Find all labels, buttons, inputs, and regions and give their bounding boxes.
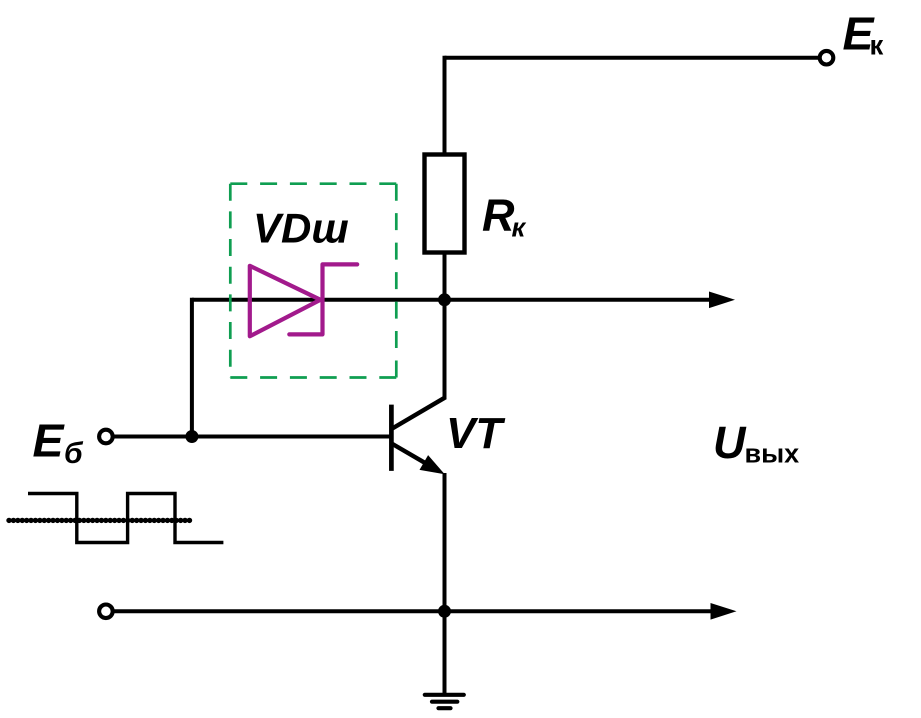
svg-text:VDш: VDш — [253, 205, 349, 252]
diode VDsh: Schottky diode triangle — [250, 266, 321, 337]
svg-text:к: к — [512, 212, 527, 242]
transistor VT: emitter arrowhead — [420, 455, 445, 474]
waveform: input square wave — [28, 494, 223, 543]
terminal: bottom-left (open circle) — [99, 605, 113, 619]
terminal Ek (open circle) — [820, 51, 834, 65]
arrowhead: output bottom — [711, 603, 737, 620]
green dashed box around Schottky diode — [230, 184, 396, 378]
wire: vertical from top rail to resistor — [443, 56, 447, 157]
svg-text:E: E — [33, 415, 66, 467]
wire: top supply rail from collector column to Ek terminal — [445, 56, 819, 60]
wire: resistor bottom to collector corner (through output node) — [443, 253, 447, 399]
svg-text:вых: вых — [745, 439, 800, 469]
transistor VT: emitter diagonal — [393, 444, 431, 466]
wire: left vertical from bend down to base junction — [190, 298, 194, 437]
ground symbol — [425, 693, 464, 697]
arrowhead: output top — [709, 292, 735, 309]
node: collector junction dot — [438, 293, 451, 306]
transistor VT: collector diagonal — [393, 397, 446, 428]
svg-text:U: U — [713, 417, 747, 468]
wire: emitter vertical down to bottom rail — [443, 473, 447, 613]
node: base junction dot — [185, 430, 198, 443]
node: emitter junction dot — [438, 605, 451, 618]
diode VDsh: Schottky cathode bar with hooks — [289, 264, 357, 334]
svg-text:б: б — [64, 437, 84, 470]
resistor Rk (rectangle) — [425, 155, 465, 253]
svg-text:R: R — [482, 190, 515, 241]
wire: horizontal collector-node line from left bend through diode to output arrow — [192, 298, 711, 302]
wire: bottom rail to output arrow — [113, 609, 713, 613]
svg-text:VT: VT — [446, 409, 505, 458]
svg-text:к: к — [870, 30, 884, 61]
terminal Eb (open circle) — [99, 430, 113, 444]
wire: junction down to ground — [443, 611, 447, 694]
waveform: dotted zero axis — [9, 518, 190, 523]
wire: base wire from Eb terminal to transistor base — [113, 435, 390, 439]
wire: collector vertical from node to transistor — [443, 397, 447, 399]
transistor VT: base bar — [389, 405, 394, 471]
